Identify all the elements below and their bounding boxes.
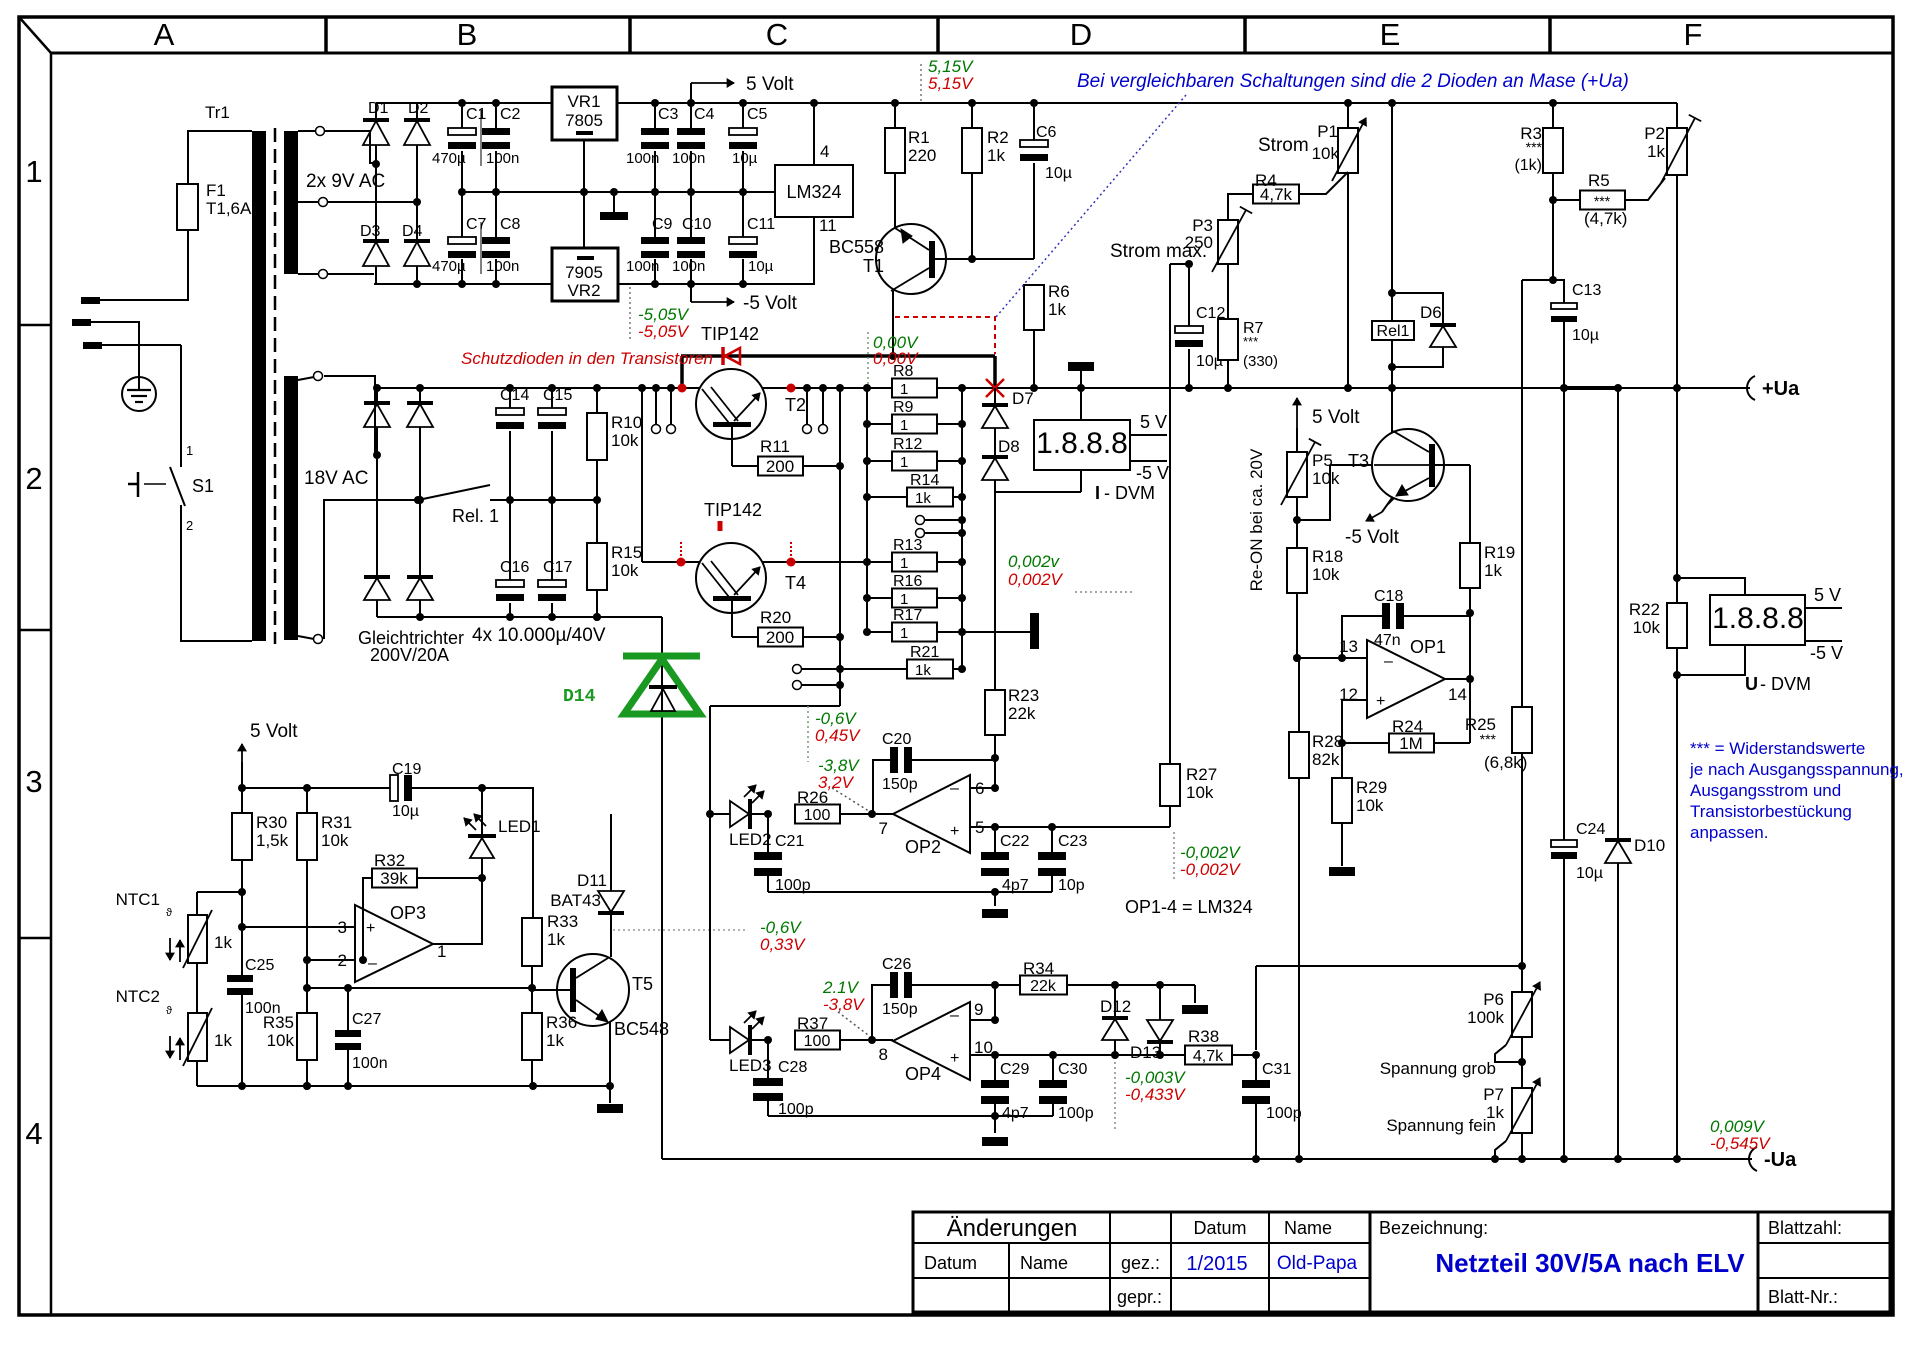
svg-text:Re-ON bei ca. 20V: Re-ON bei ca. 20V	[1247, 448, 1266, 591]
svg-text:OP1-4 = LM324: OP1-4 = LM324	[1125, 897, 1253, 917]
svg-text:LED1: LED1	[498, 817, 541, 836]
svg-text:R9: R9	[893, 399, 914, 416]
svg-text:BAT43: BAT43	[550, 891, 601, 910]
svg-text:LED2: LED2	[729, 830, 772, 849]
svg-text:R5: R5	[1588, 171, 1610, 190]
svg-text:100: 100	[804, 807, 831, 824]
svg-text:1: 1	[900, 591, 908, 608]
svg-text:C: C	[766, 17, 788, 52]
svg-text:-0,002V: -0,002V	[1180, 860, 1241, 879]
svg-text:C25: C25	[245, 957, 274, 974]
svg-text:(1k): (1k)	[1514, 157, 1542, 174]
svg-text:470µ: 470µ	[432, 258, 466, 275]
svg-text:100n: 100n	[352, 1055, 388, 1072]
svg-text:-5,05V: -5,05V	[638, 322, 690, 341]
svg-text:10µ: 10µ	[748, 258, 774, 275]
svg-text:C20: C20	[882, 731, 911, 748]
svg-text:–: –	[950, 1007, 959, 1024]
svg-text:0,33V: 0,33V	[760, 935, 806, 954]
svg-text:C19: C19	[392, 761, 421, 778]
svg-text:150p: 150p	[882, 776, 918, 793]
svg-text:7: 7	[879, 819, 888, 838]
svg-text:R13: R13	[893, 537, 922, 554]
svg-text:B: B	[457, 17, 478, 52]
svg-text:D6: D6	[1420, 303, 1442, 322]
svg-text:100: 100	[804, 1033, 831, 1050]
svg-text:Old-Papa: Old-Papa	[1277, 1253, 1358, 1274]
svg-text:9: 9	[974, 1000, 983, 1019]
svg-text:R20: R20	[760, 608, 791, 627]
svg-text:R21: R21	[910, 644, 939, 661]
svg-text:D1: D1	[368, 100, 389, 117]
svg-text:R19: R19	[1484, 543, 1515, 562]
svg-text:Änderungen: Änderungen	[947, 1215, 1078, 1242]
svg-text:F: F	[1684, 17, 1703, 52]
svg-text:2: 2	[25, 461, 42, 496]
svg-text:-0,433V: -0,433V	[1125, 1085, 1186, 1104]
svg-text:-5 Volt: -5 Volt	[1345, 527, 1400, 548]
svg-text:0,002V: 0,002V	[1008, 570, 1064, 589]
svg-text:R10: R10	[611, 413, 642, 432]
svg-text:T5: T5	[632, 974, 653, 994]
svg-text:Datum: Datum	[1193, 1218, 1246, 1238]
svg-text:+: +	[950, 823, 959, 840]
svg-text:4,7k: 4,7k	[1193, 1048, 1224, 1065]
svg-text:1,5k: 1,5k	[256, 831, 289, 850]
svg-text:C31: C31	[1262, 1061, 1291, 1078]
svg-text:R37: R37	[797, 1014, 828, 1033]
svg-text:1: 1	[186, 443, 193, 458]
svg-text:Tr1: Tr1	[205, 103, 230, 122]
svg-text:(4,7k): (4,7k)	[1584, 209, 1627, 228]
svg-text:10µ: 10µ	[1045, 165, 1072, 182]
svg-text:C17: C17	[543, 559, 572, 576]
svg-text:***: ***	[1243, 334, 1258, 349]
svg-text:10p: 10p	[1058, 877, 1085, 894]
svg-text:C23: C23	[1058, 833, 1087, 850]
svg-text:C11: C11	[747, 216, 775, 233]
svg-text:1/2015: 1/2015	[1186, 1253, 1247, 1275]
svg-text:5 V: 5 V	[1140, 412, 1167, 432]
svg-text:10k: 10k	[1312, 469, 1340, 488]
svg-text:Transistorbestückung: Transistorbestückung	[1690, 802, 1852, 821]
svg-text:150p: 150p	[882, 1001, 918, 1018]
svg-text:5 V: 5 V	[1814, 585, 1841, 605]
svg-text:1: 1	[900, 555, 908, 572]
svg-text:C15: C15	[543, 387, 572, 404]
svg-text:***: ***	[1594, 193, 1611, 209]
svg-text:R16: R16	[893, 573, 922, 590]
svg-text:R38: R38	[1188, 1027, 1219, 1046]
svg-text:R15: R15	[611, 543, 642, 562]
svg-text:R18: R18	[1312, 547, 1343, 566]
svg-text:- DVM: - DVM	[1760, 674, 1811, 694]
svg-text:C7: C7	[466, 216, 487, 233]
svg-text:200: 200	[766, 457, 794, 476]
svg-text:-5 V: -5 V	[1810, 643, 1843, 663]
svg-text:1: 1	[900, 625, 908, 642]
svg-text:Name: Name	[1284, 1218, 1332, 1238]
svg-text:C5: C5	[747, 106, 768, 123]
svg-text:10µ: 10µ	[1572, 327, 1599, 344]
svg-text:Bezeichnung:: Bezeichnung:	[1379, 1218, 1488, 1238]
svg-text:C3: C3	[658, 106, 679, 123]
svg-text:T4: T4	[785, 573, 806, 593]
svg-text:Bei vergleichbaren Schaltungen: Bei vergleichbaren Schaltungen sind die …	[1077, 71, 1629, 92]
svg-text:14: 14	[1448, 685, 1467, 704]
svg-text:–: –	[950, 780, 959, 797]
svg-text:100n: 100n	[672, 150, 705, 167]
svg-text:200: 200	[766, 628, 794, 647]
svg-text:Strom: Strom	[1258, 135, 1309, 156]
svg-text:R14: R14	[910, 472, 939, 489]
svg-text:NTC2: NTC2	[116, 987, 160, 1006]
svg-text:10k: 10k	[1312, 565, 1340, 584]
svg-text:ϑ: ϑ	[166, 907, 172, 919]
svg-text:R28: R28	[1312, 732, 1343, 751]
svg-text:-3,8V: -3,8V	[823, 995, 865, 1014]
svg-text:220: 220	[908, 146, 936, 165]
svg-text:D7: D7	[1012, 389, 1034, 408]
svg-text:Datum: Datum	[924, 1253, 977, 1273]
svg-text:1k: 1k	[1484, 561, 1502, 580]
svg-text:100n: 100n	[486, 150, 519, 167]
svg-text:U: U	[1745, 674, 1758, 694]
svg-text:Blattzahl:: Blattzahl:	[1768, 1218, 1842, 1238]
svg-text:D: D	[1070, 17, 1092, 52]
svg-text:C10: C10	[682, 216, 711, 233]
svg-text:R6: R6	[1048, 282, 1070, 301]
svg-text:C22: C22	[1000, 833, 1029, 850]
svg-text:–: –	[1384, 653, 1393, 670]
svg-text:100n: 100n	[672, 258, 705, 275]
svg-text:Strom max.: Strom max.	[1110, 241, 1207, 262]
svg-text:Rel1: Rel1	[1377, 323, 1410, 340]
svg-text:5,15V: 5,15V	[928, 74, 974, 93]
svg-text:18V AC: 18V AC	[304, 468, 368, 489]
svg-text:BC548: BC548	[614, 1019, 669, 1039]
svg-text:39k: 39k	[380, 869, 408, 888]
svg-text:C1: C1	[466, 106, 487, 123]
svg-text:D3: D3	[360, 223, 381, 240]
svg-text:C29: C29	[1000, 1061, 1029, 1078]
svg-text:1k: 1k	[546, 1031, 564, 1050]
svg-text:C4: C4	[694, 106, 715, 123]
svg-text:–: –	[368, 955, 377, 972]
svg-text:R1: R1	[908, 128, 930, 147]
svg-text:4: 4	[25, 1116, 42, 1151]
svg-text:(330): (330)	[1243, 353, 1278, 370]
svg-text:22k: 22k	[1030, 978, 1057, 995]
svg-text:0,002v: 0,002v	[1008, 552, 1061, 571]
svg-text:anpassen.: anpassen.	[1690, 823, 1768, 842]
svg-text:R36: R36	[546, 1013, 577, 1032]
svg-text:10k: 10k	[1356, 796, 1384, 815]
svg-text:5 Volt: 5 Volt	[1312, 407, 1360, 428]
svg-text:4p7: 4p7	[1002, 1105, 1029, 1122]
svg-text:100k: 100k	[1467, 1008, 1504, 1027]
svg-text:10k: 10k	[267, 1031, 295, 1050]
svg-text:470µ: 470µ	[432, 150, 466, 167]
svg-text:1.8.8.8: 1.8.8.8	[1712, 602, 1804, 635]
svg-text:OP3: OP3	[390, 903, 426, 923]
svg-text:5 Volt: 5 Volt	[250, 721, 298, 742]
svg-text:T2: T2	[785, 395, 806, 415]
svg-text:4x 10.000µ/40V: 4x 10.000µ/40V	[472, 625, 606, 646]
svg-text:R23: R23	[1008, 686, 1039, 705]
svg-text:10k: 10k	[611, 561, 639, 580]
svg-text:1k: 1k	[214, 933, 232, 952]
svg-text:4: 4	[820, 142, 829, 161]
svg-text:5 Volt: 5 Volt	[746, 74, 794, 95]
svg-text:D2: D2	[408, 100, 429, 117]
svg-text:R34: R34	[1023, 959, 1054, 978]
svg-text:+: +	[950, 1050, 959, 1067]
svg-text:R11: R11	[760, 437, 790, 456]
svg-text:10µ: 10µ	[732, 150, 758, 167]
svg-text:0,45V: 0,45V	[815, 726, 861, 745]
svg-text:1k: 1k	[915, 662, 931, 679]
svg-text:1M: 1M	[1399, 734, 1423, 753]
svg-text:*** = Widerstandswerte: *** = Widerstandswerte	[1690, 739, 1865, 758]
svg-text:gez.:: gez.:	[1121, 1253, 1160, 1273]
svg-text:OP1: OP1	[1410, 637, 1446, 657]
svg-text:R29: R29	[1356, 778, 1387, 797]
svg-text:1k: 1k	[987, 146, 1005, 165]
svg-text:200V/20A: 200V/20A	[370, 645, 449, 665]
svg-text:0,00V: 0,00V	[873, 349, 919, 368]
svg-text:TIP142: TIP142	[701, 324, 759, 344]
svg-text:(6,8k): (6,8k)	[1484, 753, 1527, 772]
svg-text:BC558: BC558	[829, 237, 884, 257]
svg-text:D11: D11	[577, 871, 607, 890]
svg-text:R27: R27	[1186, 765, 1217, 784]
svg-text:D8: D8	[998, 437, 1020, 456]
svg-text:Schutzdioden in den Transistor: Schutzdioden in den Transistoren	[461, 349, 713, 368]
svg-text:A: A	[154, 17, 175, 52]
svg-text:***: ***	[1480, 731, 1497, 747]
svg-text:R31: R31	[321, 813, 352, 832]
svg-text:TIP142: TIP142	[704, 500, 762, 520]
svg-text:D12: D12	[1100, 997, 1131, 1016]
svg-text:R26: R26	[797, 788, 828, 807]
svg-text:10k: 10k	[611, 431, 639, 450]
svg-text:P1: P1	[1317, 122, 1338, 141]
svg-text:R33: R33	[547, 912, 578, 931]
svg-text:D14: D14	[563, 687, 596, 707]
svg-text:- DVM: - DVM	[1104, 483, 1155, 503]
svg-text:-0,545V: -0,545V	[1710, 1134, 1771, 1153]
svg-text:1k: 1k	[547, 930, 565, 949]
svg-text:Netzteil 30V/5A nach ELV: Netzteil 30V/5A nach ELV	[1435, 1248, 1745, 1278]
svg-text:R12: R12	[893, 436, 922, 453]
svg-text:F1: F1	[206, 181, 226, 200]
svg-text:D13: D13	[1130, 1043, 1161, 1062]
svg-text:OP4: OP4	[905, 1064, 941, 1084]
svg-text:10µ: 10µ	[1576, 865, 1603, 882]
svg-text:R32: R32	[374, 851, 405, 870]
svg-text:100n: 100n	[626, 258, 659, 275]
svg-text:OP2: OP2	[905, 837, 941, 857]
svg-text:3: 3	[25, 764, 42, 799]
svg-text:10k: 10k	[1186, 783, 1214, 802]
svg-text:R22: R22	[1629, 600, 1660, 619]
svg-text:C14: C14	[500, 387, 529, 404]
svg-text:C13: C13	[1572, 282, 1601, 299]
svg-text:P7: P7	[1483, 1085, 1504, 1104]
svg-text:1k: 1k	[915, 490, 931, 507]
svg-text:T1,6A: T1,6A	[206, 199, 252, 218]
svg-text:VR2: VR2	[567, 281, 600, 300]
svg-text:10µ: 10µ	[392, 803, 419, 820]
svg-text:1: 1	[900, 417, 908, 434]
svg-text:13: 13	[1339, 637, 1358, 656]
svg-text:C21: C21	[775, 833, 804, 850]
svg-text:Ausgangsstrom und: Ausgangsstrom und	[1690, 781, 1841, 800]
svg-text:R35: R35	[263, 1013, 294, 1032]
svg-text:Rel. 1: Rel. 1	[452, 506, 499, 526]
svg-text:T1: T1	[863, 256, 884, 276]
svg-text:je nach Ausgangsspannung,: je nach Ausgangsspannung,	[1689, 760, 1904, 779]
svg-text:C30: C30	[1058, 1061, 1087, 1078]
svg-text:1k: 1k	[1647, 142, 1665, 161]
svg-text:10k: 10k	[321, 831, 349, 850]
svg-text:4p7: 4p7	[1002, 877, 1029, 894]
svg-text:C18: C18	[1374, 588, 1403, 605]
svg-text:R17: R17	[893, 607, 922, 624]
svg-text:100n: 100n	[626, 150, 659, 167]
svg-text:gepr.:: gepr.:	[1117, 1287, 1162, 1307]
svg-text:C26: C26	[882, 956, 911, 973]
svg-text:100p: 100p	[778, 1101, 814, 1118]
svg-text:7905: 7905	[565, 263, 603, 282]
svg-text:1: 1	[25, 154, 42, 189]
svg-text:1.8.8.8: 1.8.8.8	[1036, 427, 1128, 460]
svg-text:LM324: LM324	[786, 182, 841, 202]
svg-text:D4: D4	[402, 223, 423, 240]
svg-text:P6: P6	[1483, 990, 1504, 1009]
svg-text:Name: Name	[1020, 1253, 1068, 1273]
svg-text:+: +	[366, 920, 375, 937]
svg-text:10k: 10k	[1633, 618, 1661, 637]
svg-text:C9: C9	[652, 216, 673, 233]
svg-text:R2: R2	[987, 128, 1009, 147]
svg-text:LED3: LED3	[729, 1056, 772, 1075]
svg-text:1: 1	[900, 381, 908, 398]
svg-text:VR1: VR1	[567, 92, 600, 111]
svg-text:C16: C16	[500, 559, 529, 576]
svg-text:P2: P2	[1644, 124, 1665, 143]
svg-text:100n: 100n	[486, 258, 519, 275]
svg-text:C8: C8	[500, 216, 521, 233]
svg-text:4,7k: 4,7k	[1260, 185, 1293, 204]
svg-text:R30: R30	[256, 813, 287, 832]
svg-text:8: 8	[879, 1045, 888, 1064]
svg-text:100p: 100p	[1058, 1105, 1094, 1122]
svg-text:2: 2	[186, 518, 193, 533]
svg-text:C24: C24	[1576, 821, 1605, 838]
svg-text:D10: D10	[1634, 836, 1665, 855]
svg-text:82k: 82k	[1312, 750, 1340, 769]
svg-text:+: +	[1376, 693, 1385, 710]
svg-text:Spannung grob: Spannung grob	[1380, 1059, 1496, 1078]
svg-text:1: 1	[900, 454, 908, 471]
svg-text:11: 11	[819, 216, 837, 235]
svg-text:-5 V: -5 V	[1136, 463, 1169, 483]
svg-text:7805: 7805	[565, 111, 603, 130]
svg-text:E: E	[1380, 17, 1401, 52]
svg-text:C27: C27	[352, 1011, 381, 1028]
svg-text:2x 9V AC: 2x 9V AC	[306, 171, 385, 192]
svg-text:C2: C2	[500, 106, 521, 123]
svg-text:100p: 100p	[1266, 1105, 1302, 1122]
svg-text:S1: S1	[192, 476, 214, 496]
svg-text:22k: 22k	[1008, 704, 1036, 723]
svg-text:T3: T3	[1348, 451, 1369, 471]
svg-text:I: I	[1095, 483, 1100, 503]
svg-text:NTC1: NTC1	[116, 890, 160, 909]
svg-text:ϑ: ϑ	[166, 1005, 172, 1017]
svg-text:10k: 10k	[1312, 144, 1340, 163]
svg-text:Spannung fein: Spannung fein	[1386, 1116, 1496, 1135]
svg-text:C28: C28	[778, 1059, 807, 1076]
svg-text:***: ***	[1526, 139, 1543, 155]
svg-text:Blatt-Nr.:: Blatt-Nr.:	[1768, 1287, 1838, 1307]
svg-text:-5 Volt: -5 Volt	[743, 293, 798, 314]
svg-text:C6: C6	[1036, 124, 1057, 141]
svg-text:+Ua: +Ua	[1762, 378, 1800, 400]
svg-text:1k: 1k	[1048, 300, 1066, 319]
svg-text:1k: 1k	[214, 1031, 232, 1050]
